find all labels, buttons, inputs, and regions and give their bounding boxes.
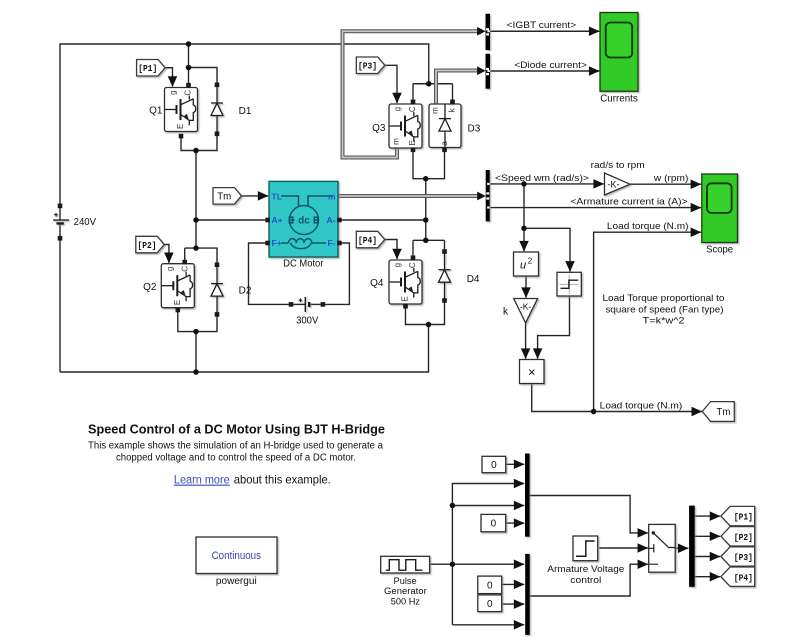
svg-text:[P1]: [P1] <box>734 512 753 523</box>
svg-text:[P2]: [P2] <box>138 240 157 251</box>
svg-text:A+: A+ <box>272 215 283 225</box>
svg-text:F+: F+ <box>272 238 282 248</box>
svg-text:powergui: powergui <box>216 576 257 587</box>
svg-text:[P4]: [P4] <box>358 235 377 246</box>
svg-text:Load Torque proportional to: Load Torque proportional to <box>603 293 725 304</box>
svg-text:Armature Voltage: Armature Voltage <box>547 564 624 575</box>
svg-text:rad/s to rpm: rad/s to rpm <box>591 160 645 171</box>
svg-text:D1: D1 <box>239 106 252 117</box>
svg-text:Currents: Currents <box>600 94 638 105</box>
svg-text:Tm: Tm <box>217 191 231 203</box>
svg-text:w (rpm): w (rpm) <box>653 173 689 184</box>
svg-text:g: g <box>169 90 178 94</box>
svg-text:g: g <box>165 267 174 271</box>
svg-text:C: C <box>184 90 193 96</box>
svg-text:a: a <box>440 141 449 146</box>
svg-text:E: E <box>401 296 410 301</box>
svg-text:<Speed wm (rad/s)>: <Speed wm (rad/s)> <box>495 173 589 184</box>
svg-text:square of speed (Fan type): square of speed (Fan type) <box>606 305 724 316</box>
svg-text:0: 0 <box>491 460 497 471</box>
svg-text:500 Hz: 500 Hz <box>391 597 420 608</box>
svg-text:[P2]: [P2] <box>734 532 753 543</box>
svg-text:C: C <box>408 262 417 268</box>
svg-text:D3: D3 <box>468 124 481 135</box>
svg-text:C: C <box>180 266 189 272</box>
svg-text:Load torque (N.m): Load torque (N.m) <box>600 401 683 412</box>
svg-text:<IGBT current>: <IGBT current> <box>507 20 577 31</box>
svg-text:E: E <box>176 124 185 129</box>
svg-text:E: E <box>408 140 417 145</box>
svg-text:[P1]: [P1] <box>138 63 157 74</box>
svg-text:m: m <box>328 191 336 201</box>
svg-text:F-: F- <box>327 238 335 248</box>
svg-text:Continuous: Continuous <box>212 550 262 562</box>
svg-text:Q3: Q3 <box>372 123 386 134</box>
svg-text:g: g <box>393 263 402 267</box>
svg-text:m: m <box>392 138 401 145</box>
svg-text:Q4: Q4 <box>370 278 384 289</box>
svg-text:Tm: Tm <box>716 406 730 418</box>
svg-text:control: control <box>570 575 601 586</box>
svg-text:C: C <box>408 106 417 112</box>
svg-text:Generator: Generator <box>384 586 427 597</box>
svg-text:E: E <box>173 300 182 305</box>
svg-text:0: 0 <box>487 580 493 591</box>
svg-text:T=k*w^2: T=k*w^2 <box>643 316 685 327</box>
svg-text:DC Motor: DC Motor <box>283 259 324 270</box>
svg-text:D4: D4 <box>467 274 480 285</box>
svg-text:Learn more: Learn more <box>174 473 230 487</box>
svg-text:Speed Control of a DC Motor Us: Speed Control of a DC Motor Using BJT H-… <box>88 422 385 437</box>
svg-text:-K-: -K- <box>520 302 532 312</box>
svg-text:[P3]: [P3] <box>734 552 753 563</box>
svg-text:0: 0 <box>487 599 493 610</box>
svg-text:D2: D2 <box>239 286 252 297</box>
svg-text:-K-: -K- <box>608 179 620 189</box>
svg-text:Q2: Q2 <box>143 282 157 293</box>
svg-text:Load torque (N.m): Load torque (N.m) <box>607 221 689 232</box>
svg-text:[P3]: [P3] <box>358 61 377 72</box>
svg-text:0: 0 <box>491 519 497 530</box>
svg-text:300V: 300V <box>296 315 319 326</box>
svg-text:<Armature current ia (A)>: <Armature current ia (A)> <box>570 197 688 208</box>
svg-text:TL: TL <box>272 191 282 201</box>
svg-text:Q1: Q1 <box>149 106 163 117</box>
svg-text:240V: 240V <box>74 217 97 228</box>
svg-text:dc: dc <box>298 215 310 226</box>
svg-text:[P4]: [P4] <box>734 572 753 583</box>
svg-text:This example shows the simulat: This example shows the simulation of an … <box>88 441 383 452</box>
svg-text:g: g <box>393 107 402 111</box>
svg-text:chopped voltage and to control: chopped voltage and to control the speed… <box>116 452 356 463</box>
svg-text:A-: A- <box>327 215 336 225</box>
svg-text:about this example.: about this example. <box>234 473 331 487</box>
svg-text:<Diode current>: <Diode current> <box>514 60 587 71</box>
svg-text:×: × <box>528 364 536 379</box>
svg-text:u: u <box>520 259 526 271</box>
svg-text:Scope: Scope <box>706 244 733 255</box>
svg-text:2: 2 <box>528 257 533 266</box>
svg-text:m: m <box>431 107 440 114</box>
